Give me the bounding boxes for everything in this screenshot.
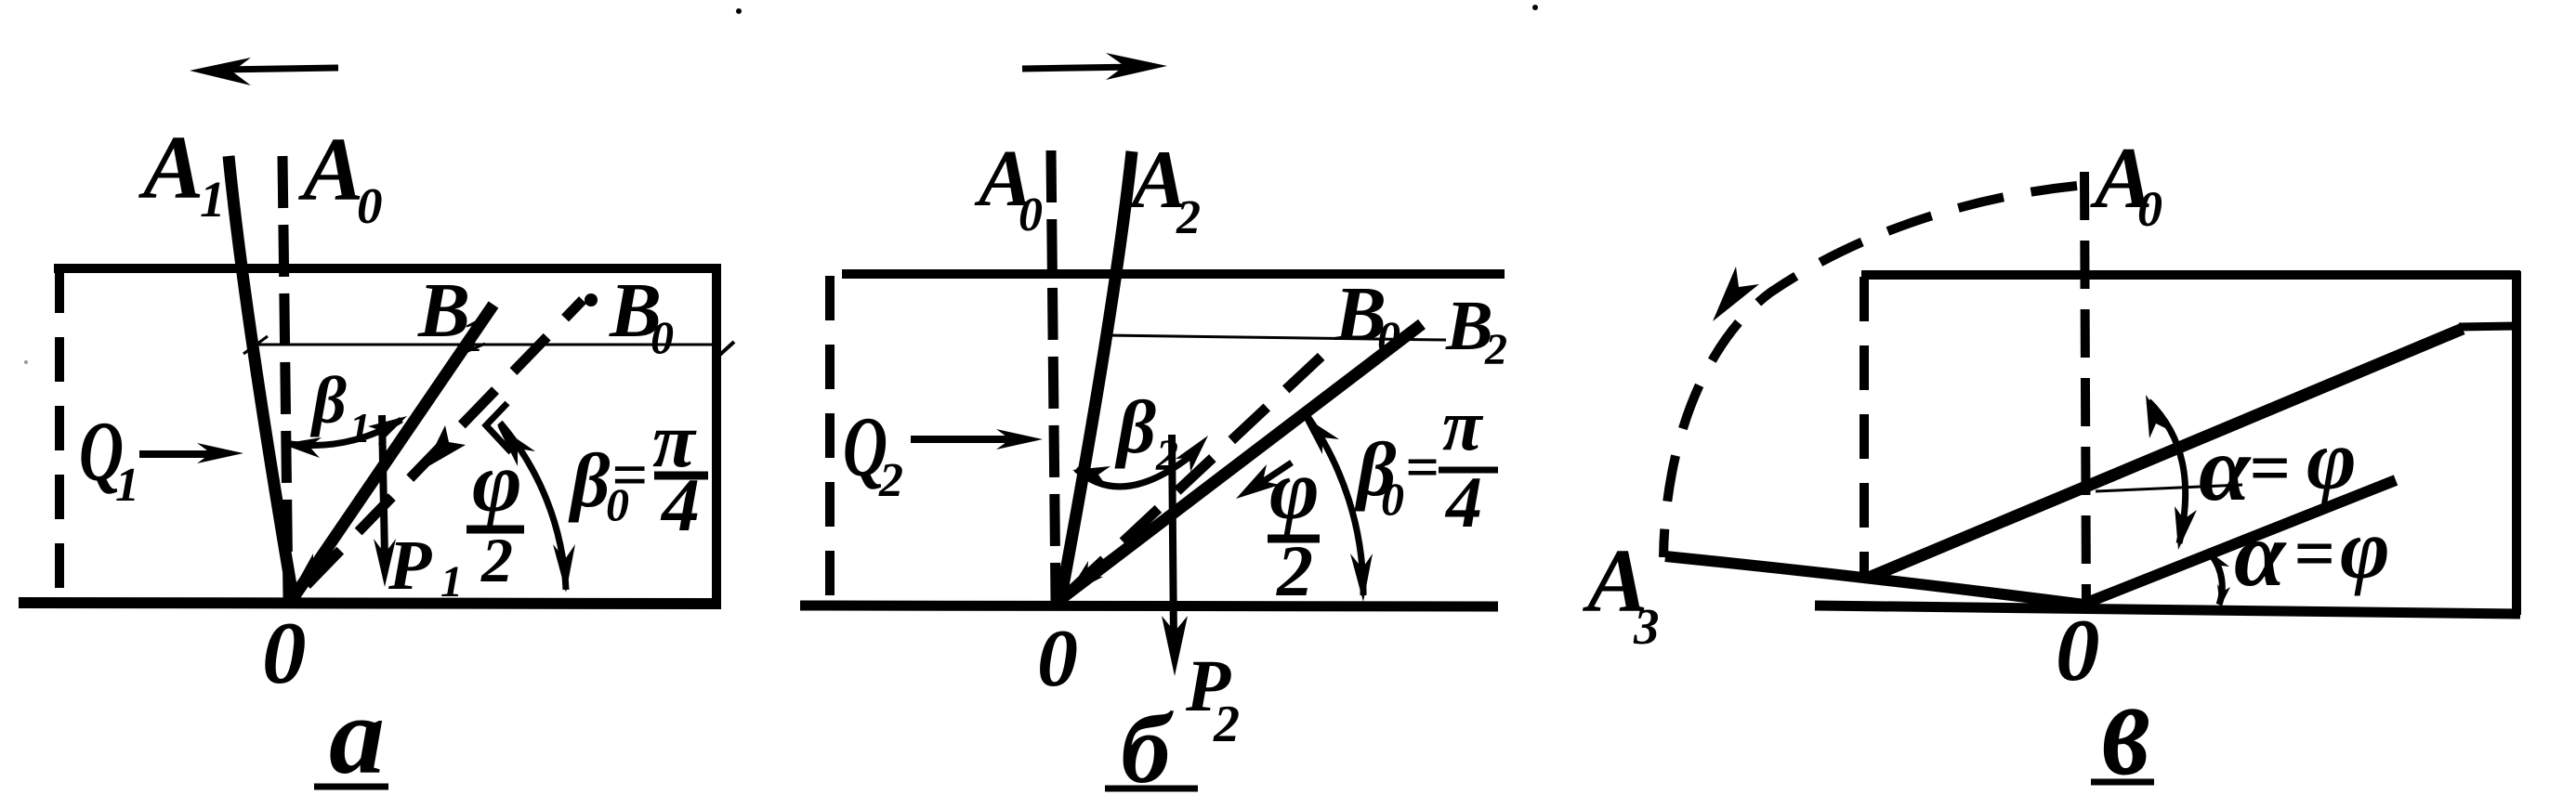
svg-text:β: β [309,363,347,437]
svg-text:φ: φ [1269,442,1320,537]
svg-text:4: 4 [1444,462,1482,542]
beta0 arc b [1305,412,1363,595]
svg-text:A: A [297,120,363,220]
box a: left dashed edge [55,268,64,596]
beta0 arc [500,423,566,590]
ground line a [19,603,721,604]
svg-text:=: = [1405,434,1439,500]
box v: left dashed edge [1860,277,1869,578]
rod B1 (solid) [292,305,493,600]
svg-text:a: a [329,673,385,797]
line A0 dashed vertical v [2084,172,2086,604]
rod A1 (solid) [229,156,293,596]
box v: top edge [1861,270,2520,280]
nub to right edge [2459,326,2517,327]
S-curve double arrow [2149,401,2186,543]
svg-text:1: 1 [349,404,371,451]
svg-text:0: 0 [357,177,383,234]
beta2 arc (double arrow) [1076,453,1194,487]
rod A2 (solid) [1060,151,1132,601]
svg-text:φ: φ [2307,412,2357,507]
svg-text:1: 1 [461,309,484,361]
svg-text:1: 1 [115,459,139,512]
line B0 dashed b [1069,351,1327,593]
small angle arc lower alpha [2212,555,2222,605]
svg-text:0: 0 [1381,473,1404,525]
svg-text:φ: φ [2340,502,2390,596]
arrowhead at O on B0 b [1067,561,1103,595]
svg-text:1: 1 [440,557,463,606]
diagonal rod in box [1871,329,2463,577]
svg-text:α: α [2234,502,2287,606]
svg-text:2: 2 [878,454,903,507]
rod B2 (solid) [1059,324,1422,600]
svg-text:2: 2 [1176,191,1201,244]
svg-text:0: 0 [1037,614,1078,704]
svg-text:0: 0 [651,311,674,363]
svg-text:2: 2 [1276,530,1313,611]
lower rod from O [2084,480,2396,604]
svg-text:0: 0 [2056,601,2100,699]
phi/2 pointer mark [486,403,511,452]
svg-text:0: 0 [262,604,307,702]
svg-text:0: 0 [1019,189,1043,241]
box b: left dashed edge [825,276,835,596]
box b: top edge [842,269,1505,279]
top motion arrow (right) [1022,53,1167,80]
force Q2 arrow [911,429,1043,450]
phi/2 leader [1250,463,1292,490]
thin horizontal line v [2096,485,2242,491]
svg-text:2: 2 [1484,325,1507,374]
line A0 (dashed vertical) [283,156,288,599]
svg-text:0: 0 [2137,181,2162,237]
svg-text:1: 1 [200,171,226,228]
box v: right edge [2512,271,2521,615]
arrowhead pointing down-left below B2 [1236,464,1280,499]
svg-text:A: A [138,118,204,218]
force P1 (weight) [374,415,396,587]
arc arrowhead [1713,267,1759,321]
top motion arrow (left) [190,58,338,85]
thin horizontal line b [1106,335,1446,340]
thin horizontal line a [255,344,716,346]
tick at A1 crossing [243,336,268,354]
svg-text:2: 2 [480,525,513,595]
box a: top edge [54,264,721,273]
svg-text:3: 3 [1633,598,1660,655]
svg-text:=: = [2293,513,2334,593]
svg-text:=: = [611,439,648,510]
fallen rod OA3 [1665,556,2084,605]
ground line v [1815,606,2520,614]
tick at B1 crossing [457,344,485,356]
svg-text:β: β [568,437,611,523]
svg-text:0: 0 [1377,311,1400,363]
arrowhead on B0 pointing to O [424,425,466,469]
dot near B0 label [585,293,598,306]
beta1 arc (double arrow) [283,420,401,446]
box a: right edge [712,266,721,604]
line B0 (dashed 45deg) [307,300,583,585]
force P2 (weight) [1162,435,1188,676]
tick at right edge [714,342,734,360]
svg-text:π: π [1442,384,1484,465]
line A0 dashed vertical b [1051,150,1056,602]
arrowhead at O on B0 [294,554,329,589]
force Q1 arrow [139,443,243,463]
svg-text:2: 2 [1213,696,1240,753]
ground line b [800,606,1498,606]
svg-text:=: = [2249,427,2290,508]
svg-text:β: β [1114,384,1156,469]
svg-text:4: 4 [660,463,700,547]
svg-text:P: P [388,527,432,605]
dashed fall arc A0 to A3 [1663,186,2077,557]
